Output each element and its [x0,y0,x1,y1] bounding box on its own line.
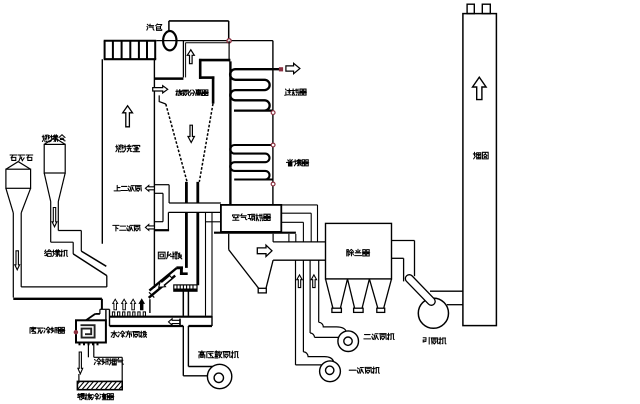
label 除尘器 [347,249,370,256]
primary fan duct bends [296,352,334,365]
node on wall (economizer top) [271,143,275,147]
loop seal standpipe legs [183,291,188,316]
secondary fan duct bends [310,322,346,337]
cyclone barrel left wall [159,95,166,104]
label 燃煤仓 [42,135,65,142]
label 高压鼓风机 [198,351,238,358]
label 下二次风 (lower secondary air) [113,225,140,231]
ash cooler teeth [79,343,99,346]
label 给煤机 (coal feeder) [45,250,68,257]
limestone silo (石灰石) [6,162,31,213]
return valve nozzle grid (回料阀) [174,285,197,291]
primary fan (一次风机) [320,361,341,382]
steam drum 汽包 [163,31,176,50]
coal feed pipe [51,202,59,243]
cooled gas arrow down [78,352,83,374]
duct ESP to ID fan [392,241,415,282]
backpass ash hopper [229,234,273,293]
node (red) on cooler [74,331,77,334]
gas arrow up in cyclone outlet [187,50,194,64]
drum water line [156,40,229,42]
high pressure blower (高压鼓风机) [207,364,231,388]
label 回料阀 (return valve) [158,252,182,259]
air preheater box (空气预热器) [221,205,281,232]
label 汽包 [147,24,162,30]
coal bunker (燃煤仓) [44,138,65,202]
lower secondary air arrow [145,225,154,231]
return flow arrow (slanted) [156,274,173,290]
furnace top header (hatched band) [104,41,157,60]
label 燃烧室 (combustion chamber) [116,145,140,152]
label 水冷布风板 (water cooled distributor) [111,331,146,338]
steam line to backpass [229,40,273,42]
coal chute [73,251,107,287]
ID fan inlet pipe [404,273,437,307]
label 冷却烟气 (cooled flue gas) [94,358,123,365]
flue arrow up in chimney [473,77,487,99]
line red-node to duct [228,41,230,62]
standpipe right wall [196,182,199,285]
label 石灰石 [10,155,33,161]
node junction (red) [227,39,231,43]
superheater coil (过热器) [230,69,281,110]
cyclone inlet arrow [153,86,168,93]
fluidizing air arrows [113,299,145,310]
backpass right wall [272,41,274,205]
label 旋风分离器 (cyclone separator) [176,89,208,95]
secondary air duct (horizontal) [168,203,221,212]
ID fan casing (引风机) [418,298,448,328]
flue duct top (thick) [199,59,230,62]
return chute lower wall [149,276,176,298]
flue duct to dust collector [273,242,325,260]
coal flow arrow down [52,208,57,227]
node on wall (economizer bottom) [271,182,275,186]
ash drain pipe [79,343,122,382]
blower duct [183,326,214,376]
label 二次风机 [364,333,394,340]
chimney top caps [467,4,490,13]
primary air down duct [206,212,221,315]
air flow arrow up (duct B) [311,275,316,288]
label 一次风机 [349,367,379,374]
duct ID fan to chimney [430,291,463,305]
label 过热器 (superheater) [285,89,307,96]
cyclone barrel top (thick) [154,77,183,80]
label 引风机 [423,337,446,344]
furnace left wall [101,59,103,244]
backpass left wall (thick) [229,61,231,205]
dust collector hoppers [326,279,392,313]
economizer coil (省煤器) [230,145,273,180]
air ducts from preheater (nested bends) [281,205,317,242]
spiral slag cooler (hatched) [72,381,127,391]
label 空气预热器 [233,214,271,221]
dust collector box (除尘器) [326,223,392,279]
secondary fan (二次风机) [338,331,359,352]
limestone flow arrow down [15,251,20,270]
secondary fan riser duct [310,260,319,333]
steam outlet node (red square) [279,67,283,71]
secondary air manifold [155,185,170,231]
steam outlet arrow [286,63,300,73]
label 烟囱 [473,152,488,159]
ash cooler neck [86,309,110,320]
ash cooler spiral [81,325,95,337]
upper secondary air arrow [145,185,154,191]
cyclone outlet channel inner wall [185,43,187,78]
cyclone cone right [199,104,213,182]
furnace right wall [149,59,154,313]
chimney (烟囱) [463,14,497,326]
windbox air fitting arrow [169,319,181,326]
flue gas arrow right [257,245,272,256]
air distributor nozzles [112,312,145,316]
return chute upper wall [149,268,176,291]
limestone feed pipe [13,213,21,298]
air flow arrow up (duct A) [297,275,302,288]
standpipe hook [176,268,187,274]
preheater bottom plate (thick) [214,232,296,234]
flow arrow up in furnace [123,106,133,127]
label 省煤器 (economizer) [287,159,309,166]
label 螺旋冷渣器 [78,393,114,400]
primary fan riser duct [296,260,304,365]
cyclone outlet channel left wall [182,41,184,78]
bottom ash cooler box (底灰冷却器) [76,320,106,342]
coal feeder steps [51,231,82,254]
flue duct corner step (thick) [199,59,214,104]
riser pipe drum top line [169,21,229,41]
node on wall (superheater) [271,111,275,115]
label 底灰冷却器 [30,327,65,333]
label 上二次风 (upper secondary air) [114,185,141,191]
bottom ash duct [13,287,107,309]
standpipe left wall [185,182,188,268]
downcomer line [186,42,230,44]
cyclone cone left [166,104,187,182]
windbox [110,309,213,326]
solids arrow down in cyclone [188,125,194,142]
